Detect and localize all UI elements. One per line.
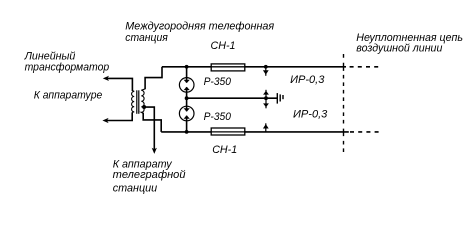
svg-text:ИР-0,3: ИР-0,3 [293,108,328,120]
svg-text:ИР-0,3: ИР-0,3 [290,74,325,86]
svg-text:СН-1: СН-1 [212,144,237,156]
arrowhead telegraph down [152,148,157,154]
fuse CH-1 top [211,64,245,71]
wire: to apparatus upper lead [106,78,132,91]
wire: middle line to ground [187,97,278,99]
label: Неуплотненная цепь воздушной линии [356,32,463,55]
svg-text:воздушной линии: воздушной линии [356,43,442,55]
arrowhead left upper [103,76,109,81]
ground symbol [276,93,278,104]
spark gap IR-0,3 upper: electrode arrow down [265,67,267,76]
transformer T1 secondary winding [141,89,145,114]
wire: secondary top lead to top line [145,67,162,89]
svg-text:трансформатор: трансформатор [25,61,110,73]
arrester P-350 lower (circle) [179,106,194,121]
dashed continuation top wire [350,66,380,68]
wire: top line [162,66,346,68]
svg-text:СН-1: СН-1 [211,40,236,52]
wire: tap to telegraph apparatus [144,107,154,150]
wire: bottom line [161,131,349,133]
spark gap IR-0,3 upper: node on top line [264,65,268,69]
spark gap middle electrode up [265,90,267,98]
svg-text:К аппаратуре: К аппаратуре [34,89,103,101]
svg-text:Р-350: Р-350 [204,76,232,88]
dashed continuation bottom wire [350,131,379,133]
dashed boundary line vertical with crossing ticks [343,54,345,152]
node: middle junction [185,96,189,100]
spark gap middle electrode down [265,98,267,108]
node: top line junction [185,65,189,69]
wire: arrester column vertical [186,67,188,83]
svg-text:станция: станция [125,32,168,44]
wire: secondary bottom lead to bottom line [143,113,161,132]
node: transformer tap [142,105,146,109]
arrester P-350 upper (circle) [179,78,194,93]
transformer T1 primary winding [132,91,135,113]
svg-text:станции: станции [113,182,158,194]
arrowhead left lower [102,118,108,123]
label: Междугородняя телефонная станция [125,21,274,44]
label: К аппарату телеграфной станции [113,159,186,195]
label: Линейный трансформатор [24,51,110,74]
node: bottom line junction [185,130,189,134]
transformer T1 core [136,90,138,114]
svg-text:Р-350: Р-350 [204,111,232,123]
svg-text:Междугородняя телефонная: Междугородняя телефонная [125,21,274,33]
spark gap middle node [264,96,268,100]
fuse CH-1 bottom [211,128,245,135]
spark gap IR-0,3 lower: electrode arrow up from bottom line [265,123,267,132]
svg-text:телеграфной: телеграфной [113,169,186,181]
wire: to apparatus lower lead [106,112,132,120]
